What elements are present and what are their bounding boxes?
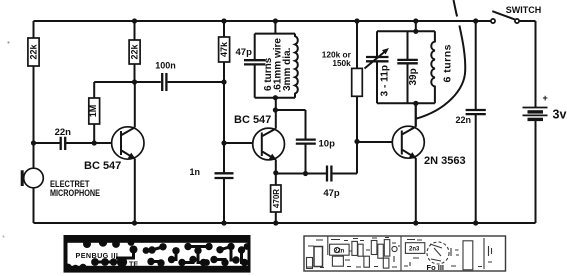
ground rail junction dots bbox=[132, 220, 137, 225]
node G Q3 base node bbox=[354, 139, 359, 144]
svg-text:2N 3563: 2N 3563 bbox=[424, 155, 466, 167]
svg-text:1M: 1M bbox=[88, 105, 98, 118]
resistor R6 120k/150k bbox=[354, 18, 359, 23]
svg-text:3mm dia.: 3mm dia. bbox=[282, 47, 293, 91]
node E coil bottom bbox=[273, 95, 278, 100]
capacitor C5 47p bbox=[276, 142, 357, 174]
svg-text:470R: 470R bbox=[272, 189, 281, 208]
svg-text:MICROPHONE: MICROPHONE bbox=[50, 188, 100, 199]
transistor Q2 BC547 bbox=[253, 128, 285, 160]
inductor L2 6 turns bbox=[431, 31, 435, 103]
node A mic/22n junction bbox=[31, 140, 36, 145]
svg-text:2n3: 2n3 bbox=[409, 247, 420, 253]
svg-text:3v: 3v bbox=[553, 108, 567, 122]
tank circuit frame bbox=[413, 18, 418, 23]
svg-text:100n: 100n bbox=[155, 61, 176, 71]
svg-text:22n: 22n bbox=[55, 127, 72, 138]
svg-text:+: + bbox=[543, 93, 548, 103]
battery B1 3v bbox=[535, 21, 537, 223]
paper specks bbox=[7, 41, 9, 43]
wire Q2 base feed bbox=[224, 142, 261, 144]
capacitor C3 1n bbox=[215, 173, 234, 178]
resistor R5 470R bbox=[271, 185, 281, 212]
wire 47k node down to Q2 base bbox=[223, 82, 225, 173]
node D Q2 emitter bbox=[273, 170, 278, 175]
node F 10p tap bbox=[273, 107, 278, 112]
svg-text:PENBUG III: PENBUG III bbox=[76, 251, 119, 260]
wire Q3 base feed bbox=[357, 141, 401, 143]
PCB copper pattern PENBUG III bbox=[64, 235, 251, 273]
capacitor C1 22n bbox=[61, 137, 65, 150]
capacitor C6 39p bbox=[407, 31, 409, 103]
capacitor C2 100n bbox=[135, 81, 224, 83]
trimmer VC1 3-11p bbox=[376, 31, 378, 103]
svg-text:22k: 22k bbox=[29, 44, 39, 60]
inductor L1 6 turns with 47p bbox=[273, 18, 278, 23]
wire left branch vertical bbox=[33, 21, 35, 223]
svg-text:150k: 150k bbox=[332, 58, 351, 68]
wire 1M bottom to base bbox=[93, 124, 95, 143]
wire bottom ground rail bbox=[34, 222, 536, 224]
wire top supply rail bbox=[34, 20, 536, 22]
svg-text:22k: 22k bbox=[130, 44, 140, 60]
resistor R4 47k bbox=[221, 18, 226, 23]
node B Q1 collector bbox=[132, 79, 137, 84]
capacitor C4 10p bbox=[275, 110, 305, 174]
node C 47k/100n junction bbox=[221, 79, 226, 84]
svg-text:6 turns: 6 turns bbox=[442, 44, 454, 82]
svg-text:1n: 1n bbox=[189, 167, 200, 177]
svg-text:22n: 22n bbox=[334, 249, 345, 255]
resistor R1 22k bbox=[28, 38, 39, 66]
PCB component overlay bbox=[304, 236, 506, 271]
svg-text:BC 547: BC 547 bbox=[234, 114, 271, 126]
svg-text:BC 547: BC 547 bbox=[84, 160, 121, 172]
transistor Q3 2N3563 bbox=[392, 126, 424, 158]
svg-text:SWITCH: SWITCH bbox=[506, 5, 542, 15]
transistor Q1 BC547 bbox=[112, 127, 144, 159]
svg-text:TE: TE bbox=[129, 259, 138, 268]
resistor R2 1M bbox=[89, 98, 100, 124]
resistor R3 22k bbox=[132, 18, 137, 23]
svg-text:10p: 10p bbox=[319, 139, 336, 150]
electret microphone MIC1 bbox=[24, 168, 44, 188]
svg-text:39p: 39p bbox=[408, 68, 419, 85]
capacitor C7 22n bbox=[473, 18, 478, 23]
svg-text:Fo III: Fo III bbox=[427, 263, 445, 272]
switch S1 bbox=[491, 19, 495, 23]
svg-text:22n: 22n bbox=[456, 115, 472, 125]
wire 1M top to collector node bbox=[94, 82, 134, 98]
svg-text:47p: 47p bbox=[323, 188, 340, 199]
svg-text:3 - 11p: 3 - 11p bbox=[379, 65, 390, 97]
svg-text:47k: 47k bbox=[219, 41, 229, 57]
svg-text:47p: 47p bbox=[236, 47, 253, 58]
antenna wire bbox=[454, 0, 458, 17]
wire base feed Q1 bbox=[34, 142, 120, 144]
